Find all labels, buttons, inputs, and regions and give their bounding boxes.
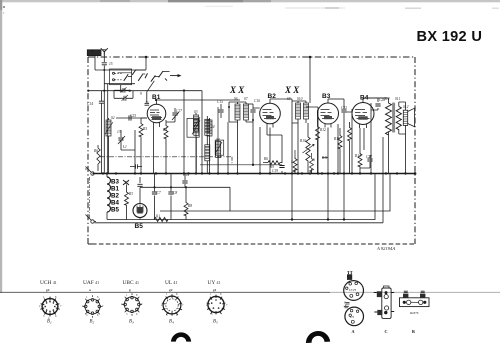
svg-text:C16: C16 <box>254 99 260 103</box>
svg-text:C8: C8 <box>173 191 177 195</box>
svg-text:3: 3 <box>126 313 128 316</box>
svg-text:3: 3 <box>86 314 88 317</box>
svg-text:R4: R4 <box>162 128 167 132</box>
svg-text:g1: g1 <box>213 288 217 292</box>
svg-text:8: 8 <box>55 296 57 299</box>
svg-text:B5: B5 <box>135 223 144 230</box>
svg-text:S7: S7 <box>244 97 248 101</box>
svg-text:S9: S9 <box>287 97 291 101</box>
svg-text:8: 8 <box>97 296 99 299</box>
svg-text:A: A <box>352 329 355 334</box>
svg-text:1: 1 <box>86 296 88 299</box>
svg-text:C22: C22 <box>341 106 347 110</box>
svg-text:UCH: UCH <box>349 288 356 292</box>
svg-text:C: C <box>385 329 388 334</box>
svg-text:7: 7 <box>141 303 143 306</box>
svg-text:R1: R1 <box>155 215 160 219</box>
svg-text:C25: C25 <box>130 114 136 118</box>
svg-text:7: 7 <box>226 304 228 307</box>
svg-text:B1: B1 <box>47 320 52 325</box>
svg-text:R3: R3 <box>128 192 133 196</box>
svg-text:X X: X X <box>284 85 300 95</box>
svg-text:8: 8 <box>136 294 138 297</box>
svg-text:R9: R9 <box>269 165 274 169</box>
svg-text:R8: R8 <box>187 204 192 208</box>
svg-text:C19: C19 <box>272 169 278 173</box>
svg-text:R13: R13 <box>333 137 340 141</box>
svg-text:B1: B1 <box>152 94 161 101</box>
svg-text:8: 8 <box>220 293 222 296</box>
svg-text:X X: X X <box>229 85 245 95</box>
svg-text:3: 3 <box>211 313 213 316</box>
svg-text:S11: S11 <box>395 97 400 101</box>
svg-text:B4: B4 <box>169 320 174 325</box>
svg-text:R10: R10 <box>299 139 306 143</box>
svg-text:S3: S3 <box>194 110 198 114</box>
svg-text:B: B <box>412 329 415 334</box>
svg-text:B4: B4 <box>111 200 119 207</box>
svg-text:R12: R12 <box>319 128 326 132</box>
svg-text:S10: S10 <box>297 97 303 101</box>
svg-text:B4: B4 <box>360 95 369 102</box>
svg-text:6: 6 <box>313 158 315 162</box>
svg-text:S8: S8 <box>216 138 220 142</box>
svg-text:B1: B1 <box>111 186 119 193</box>
svg-text:B5: B5 <box>213 320 218 325</box>
svg-text:6: 6 <box>97 314 99 317</box>
svg-text:S12: S12 <box>403 105 409 109</box>
svg-text:9: 9 <box>140 92 142 96</box>
svg-text:BX 192 U: BX 192 U <box>417 29 483 45</box>
svg-text:g2: g2 <box>169 288 173 292</box>
svg-text:1: 1 <box>210 293 212 296</box>
svg-text:3: 3 <box>166 314 168 317</box>
svg-text:B3: B3 <box>111 179 119 186</box>
svg-text:13: 13 <box>117 130 121 134</box>
svg-text:5: 5 <box>291 160 293 164</box>
svg-text:g: g <box>129 288 131 292</box>
svg-text:C17: C17 <box>176 109 182 113</box>
svg-text:C14: C14 <box>183 173 189 177</box>
svg-text:3: 3 <box>43 315 45 318</box>
svg-text:g2: g2 <box>46 288 50 292</box>
svg-text:1: 1 <box>126 294 128 297</box>
svg-text:7: 7 <box>60 305 62 308</box>
svg-text:15: 15 <box>109 62 113 66</box>
svg-text:A 92194A: A 92194A <box>376 246 395 251</box>
svg-text:UAF 41: UAF 41 <box>83 280 99 286</box>
svg-text:R1876: R1876 <box>409 311 419 315</box>
svg-text:C15: C15 <box>217 100 223 104</box>
svg-text:UY 41: UY 41 <box>208 280 221 286</box>
svg-text:2: 2 <box>39 305 41 308</box>
svg-text:UCH 41: UCH 41 <box>40 280 57 286</box>
svg-text:B2: B2 <box>111 193 119 200</box>
svg-text:C14: C14 <box>87 102 93 106</box>
svg-text:L1: L1 <box>122 145 127 149</box>
svg-text:C27: C27 <box>366 155 372 159</box>
svg-text:S6: S6 <box>234 97 238 101</box>
svg-text:L1: L1 <box>124 181 129 185</box>
svg-text:UL 41: UL 41 <box>165 280 177 286</box>
svg-text:a: a <box>85 167 87 171</box>
svg-text:R6: R6 <box>93 149 98 153</box>
svg-text:S10: S10 <box>384 97 390 101</box>
svg-text:a: a <box>89 288 91 292</box>
svg-text:B2: B2 <box>90 320 95 325</box>
svg-text:UBC 41: UBC 41 <box>123 280 139 286</box>
svg-text:R6: R6 <box>263 157 268 161</box>
svg-text:R11: R11 <box>321 156 328 160</box>
svg-text:6: 6 <box>136 313 138 316</box>
svg-text:8: 8 <box>176 293 178 296</box>
svg-text:6: 6 <box>55 315 57 318</box>
svg-text:7: 7 <box>102 305 104 308</box>
svg-text:B3: B3 <box>322 93 331 100</box>
svg-text:S4: S4 <box>211 125 215 129</box>
svg-text:1: 1 <box>166 293 168 296</box>
svg-text:UY: UY <box>350 315 355 319</box>
svg-text:16: 16 <box>145 101 149 105</box>
svg-text:B3: B3 <box>129 320 134 325</box>
svg-text:B2: B2 <box>268 93 277 100</box>
svg-text:R14: R14 <box>354 154 361 158</box>
svg-text:S2: S2 <box>111 116 115 120</box>
svg-text:7: 7 <box>182 304 184 307</box>
svg-text:B5: B5 <box>111 207 119 214</box>
svg-text:R5: R5 <box>142 127 147 131</box>
svg-text:C7: C7 <box>157 191 161 195</box>
